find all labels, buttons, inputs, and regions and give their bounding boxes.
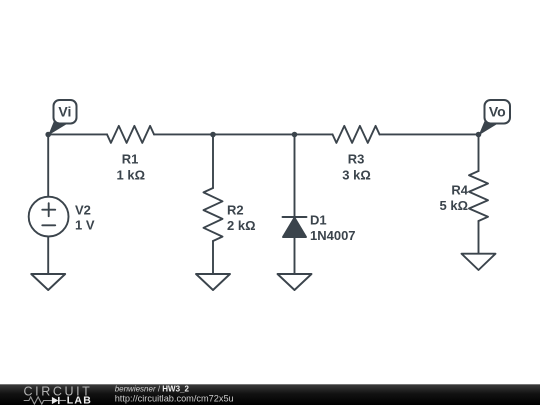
resistor R1: [107, 126, 154, 143]
junction dot at Vo node: [476, 132, 482, 138]
wire D1 to ground: [294, 237, 296, 274]
ground under R2: [196, 274, 230, 290]
wire node A down to R2: [212, 134, 214, 188]
wire R3 to node Vo: [380, 133, 479, 135]
V2 minus sign: [42, 224, 55, 226]
svg-text:5 kΩ: 5 kΩ: [440, 198, 469, 213]
ground under R4: [462, 254, 496, 270]
svg-text:LAB: LAB: [67, 395, 92, 405]
logo waveform: [24, 397, 52, 404]
node Vi flag tail: [48, 121, 67, 136]
wire R4 to ground: [478, 221, 480, 254]
svg-text:R4: R4: [451, 183, 468, 198]
ground under V2: [31, 274, 65, 290]
wire main top rail left: [48, 133, 107, 135]
svg-text:3 kΩ: 3 kΩ: [342, 168, 371, 183]
node Vo flag tail: [479, 121, 498, 136]
resistor R2: [204, 188, 223, 241]
junction dot node B: [292, 132, 298, 138]
resistor R4: [469, 171, 488, 221]
source V2 circle: [29, 197, 69, 237]
diode D1 cathode bar: [283, 216, 307, 218]
svg-text:1N4007: 1N4007: [310, 228, 356, 243]
svg-text:2 kΩ: 2 kΩ: [227, 218, 256, 233]
svg-text:R2: R2: [227, 203, 244, 218]
svg-text:Vo: Vo: [489, 103, 506, 119]
svg-text:V2: V2: [75, 203, 91, 218]
svg-text:1 kΩ: 1 kΩ: [117, 168, 146, 183]
svg-text:D1: D1: [310, 212, 327, 227]
logo diode symbol: [52, 397, 58, 404]
junction dot at Vi node: [45, 132, 51, 138]
wire Vi node down to V2: [47, 134, 49, 196]
wire Vo node down to R4: [478, 134, 480, 171]
resistor R3: [333, 126, 380, 143]
svg-text:benwiesner / HW3_2: benwiesner / HW3_2: [115, 385, 190, 394]
svg-text:R1: R1: [122, 152, 139, 167]
wire node B down to D1: [294, 134, 296, 217]
wire V2 to ground: [47, 237, 49, 275]
wire node A to node B: [154, 133, 333, 135]
node Vi flag box: [54, 100, 77, 124]
diode D1 triangle: [283, 218, 306, 237]
ground under D1: [278, 274, 312, 290]
V2 plus sign: [42, 209, 55, 211]
wire R2 to ground: [212, 241, 214, 274]
svg-text:Vi: Vi: [58, 103, 71, 119]
node Vo flag box: [485, 100, 511, 124]
svg-text:1 V: 1 V: [75, 218, 95, 233]
junction dot node A: [210, 132, 216, 138]
svg-text:R3: R3: [348, 152, 365, 167]
footer bar: [0, 384, 540, 405]
svg-text:http://circuitlab.com/cm72x5u: http://circuitlab.com/cm72x5u: [115, 393, 234, 403]
